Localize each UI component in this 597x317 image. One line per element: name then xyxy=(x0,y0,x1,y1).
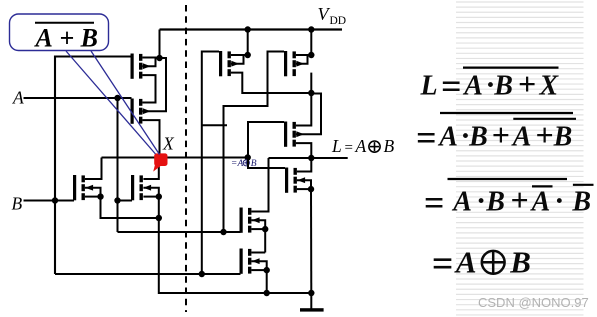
wire node L line xyxy=(269,157,348,159)
label A xyxy=(12,88,24,108)
svg-text:B: B xyxy=(493,70,513,101)
svg-text:+: + xyxy=(510,182,528,218)
node M junction xyxy=(308,90,314,96)
svg-text:A: A xyxy=(511,122,532,153)
wire N5 body tie xyxy=(297,180,311,189)
wire P5 body tie xyxy=(296,94,321,135)
wire A bus down xyxy=(117,201,119,233)
callout box NOR output equation xyxy=(10,14,109,51)
wire B bus bottom to N4 gate xyxy=(55,273,241,275)
wire input A xyxy=(24,97,132,99)
node A-P4 gate junction xyxy=(220,229,226,235)
wire T2 source to node X xyxy=(142,120,159,154)
svg-text:B: B xyxy=(553,122,573,153)
node ground rail junction 1 xyxy=(264,290,270,296)
transistor T2 (PMOS, gate A) xyxy=(131,99,151,124)
node N5 source junction xyxy=(308,186,314,192)
transistor P5 (PMOS, gate X) xyxy=(284,122,304,147)
node A-N2 junction xyxy=(114,197,120,203)
wire T2 body tie xyxy=(142,58,166,111)
node X output junction xyxy=(245,154,251,160)
svg-text:B: B xyxy=(468,122,488,153)
svg-text:+: + xyxy=(492,117,510,153)
svg-text:A: A xyxy=(355,136,367,156)
wire N3 source lead xyxy=(251,228,265,230)
node NMOS source rail junction xyxy=(156,215,162,221)
equation 3 overbar on A xyxy=(532,185,553,187)
node N4 source junction xyxy=(264,267,270,273)
wire N4 source to ground xyxy=(266,270,268,293)
svg-text:DD: DD xyxy=(330,15,347,27)
svg-text:=: = xyxy=(432,243,454,285)
label node X equals A xor B (small) xyxy=(232,159,257,169)
label VDD xyxy=(318,4,347,27)
wire N3 body tie xyxy=(251,220,265,229)
node VDD-P4 junction xyxy=(308,26,314,32)
svg-text:B: B xyxy=(12,194,23,214)
wire N4 body tie xyxy=(251,261,266,270)
node X marker (red) xyxy=(153,153,167,171)
wire P5 drain to node M xyxy=(296,93,311,126)
ground symbol xyxy=(300,293,324,312)
svg-text:B: B xyxy=(509,244,531,279)
wire P3 drain to VDD xyxy=(247,30,249,56)
callout overbar xyxy=(35,22,94,24)
svg-text:·: · xyxy=(462,120,470,153)
svg-text:B: B xyxy=(571,187,591,218)
equation 3 outer overbar xyxy=(448,178,568,180)
label B xyxy=(12,194,23,214)
svg-text:B: B xyxy=(384,136,395,156)
wire P4 drain to VDD xyxy=(310,30,312,56)
wire input B xyxy=(24,199,75,201)
wire N5 source lead xyxy=(297,188,311,190)
watermark CSDN xyxy=(478,295,589,310)
svg-text:CSDN @NONO.97: CSDN @NONO.97 xyxy=(478,295,589,310)
svg-text:A: A xyxy=(530,187,551,218)
transistor P3 (PMOS, gate B) xyxy=(219,51,239,76)
wire T1 source to T2 drain xyxy=(142,75,155,102)
wire N2 source down xyxy=(158,197,160,218)
equation 2 outer overbar xyxy=(440,112,573,114)
equation 2 inner overbar xyxy=(513,118,576,120)
wire B bus vertical xyxy=(54,56,56,275)
callout text A+B xyxy=(34,24,99,53)
svg-text:A + B: A + B xyxy=(34,24,99,53)
wire N2 body tie xyxy=(143,188,158,197)
svg-text:=: = xyxy=(424,183,445,223)
wire T1 drain lead xyxy=(142,57,159,59)
wire N5 source to ground xyxy=(310,189,312,293)
node VDD-P3 junction xyxy=(245,26,251,32)
svg-text:+: + xyxy=(535,117,553,153)
transistor N3 (NMOS, gate A) xyxy=(240,208,260,233)
svg-text:B: B xyxy=(485,187,505,218)
node N2 source junction xyxy=(156,193,162,199)
svg-text:X: X xyxy=(539,70,560,101)
wire N2 drain to node X xyxy=(143,165,158,179)
wire N5 gate to node X xyxy=(248,158,285,169)
wire N1 body tie xyxy=(85,188,101,197)
wire N1 source down xyxy=(101,197,159,218)
wire left cell ground return xyxy=(159,218,267,293)
transistor N1 (NMOS, gate B) xyxy=(73,175,93,200)
wire gate bus cross tie xyxy=(202,124,227,126)
wire N5 drain to node L xyxy=(297,158,311,172)
wire P3 source to node M xyxy=(231,73,311,93)
node P3 drain junction xyxy=(245,52,251,58)
wire N4 drain lead xyxy=(251,252,265,254)
equation 3: = not(A.B + notA.notB) xyxy=(424,182,591,223)
wire A vertical branch xyxy=(117,98,119,201)
svg-text:·: · xyxy=(477,185,485,218)
wire node X line xyxy=(102,156,248,158)
svg-text:=: = xyxy=(416,118,437,158)
node A junction xyxy=(114,95,120,101)
wire N3 source to N4 drain xyxy=(264,229,266,252)
wire NOR gate frame top (B to T1 gate) xyxy=(55,55,132,57)
dashed stage divider xyxy=(185,5,187,312)
transistor T1 (PMOS, gate B) xyxy=(131,54,151,79)
svg-text:·: · xyxy=(555,185,563,218)
wire P5 gate to node X xyxy=(248,122,284,158)
wire P3 drain lead xyxy=(231,54,248,56)
transistor N2 (NMOS, gate A) xyxy=(131,175,151,200)
wire N4 source lead xyxy=(251,269,266,271)
wire P3 gate bus xyxy=(202,52,219,275)
svg-text:A: A xyxy=(451,187,472,218)
node ground rail junction 2 xyxy=(308,290,314,296)
svg-text:=: = xyxy=(441,66,462,106)
wire A to N2 gate xyxy=(118,200,133,202)
label L=A xor B xyxy=(331,136,395,156)
wire P3 body tie xyxy=(231,55,248,64)
equation 3 overbar on B xyxy=(573,184,594,186)
wire P4 drain lead xyxy=(296,54,311,56)
svg-text:X: X xyxy=(162,134,175,154)
svg-text:A: A xyxy=(462,70,483,101)
wire P4 gate bus xyxy=(224,52,285,233)
svg-text:+: + xyxy=(518,65,536,101)
svg-text:A: A xyxy=(437,122,458,153)
wire ground rail xyxy=(159,292,311,294)
svg-text:L: L xyxy=(420,70,438,101)
wire P4 source to node M xyxy=(310,73,312,93)
VDD rail xyxy=(160,28,343,30)
wire N3 drain to node L xyxy=(251,158,268,212)
equation 2: = not(A.B + not(A+B)) xyxy=(416,117,572,158)
node B-P3 gate junction xyxy=(199,271,205,277)
svg-text:·: · xyxy=(487,68,495,101)
svg-text:=: = xyxy=(345,140,353,156)
wire N2 source lead xyxy=(143,196,158,198)
node N1 source junction xyxy=(97,193,103,199)
equation 1 overbar xyxy=(463,66,559,68)
svg-text:A: A xyxy=(237,159,244,169)
equation 4: = A xor B xyxy=(432,243,531,285)
wire P5 source to node L xyxy=(296,143,311,158)
wire P4 body tie xyxy=(296,55,311,64)
wire A bus to N3 gate xyxy=(118,231,241,233)
svg-text:A: A xyxy=(454,244,477,279)
wire T1 body tie xyxy=(142,58,159,66)
wire N1 drain to node X xyxy=(85,158,102,180)
striped note background xyxy=(456,2,584,315)
callout leader line 2 xyxy=(91,51,160,155)
node N3 source junction xyxy=(262,226,268,232)
node T1 drain junction xyxy=(156,55,162,61)
label X xyxy=(162,134,175,154)
node B junction xyxy=(52,197,58,203)
transistor N4 (NMOS, gate B) xyxy=(240,249,260,274)
wire T1 drain to VDD xyxy=(159,30,161,59)
callout leader line 1 xyxy=(66,51,156,154)
wire N1 source lead xyxy=(85,196,101,198)
svg-text:=: = xyxy=(232,159,237,169)
equation 1: L = not(A.B+X) xyxy=(420,65,560,106)
node P4 drain junction xyxy=(308,52,314,58)
svg-text:L: L xyxy=(331,136,342,156)
node L junction xyxy=(308,155,314,161)
svg-text:A: A xyxy=(12,88,24,108)
transistor P4 (PMOS, gate A) xyxy=(284,51,304,76)
transistor N5 (NMOS, gate X) xyxy=(285,168,305,193)
